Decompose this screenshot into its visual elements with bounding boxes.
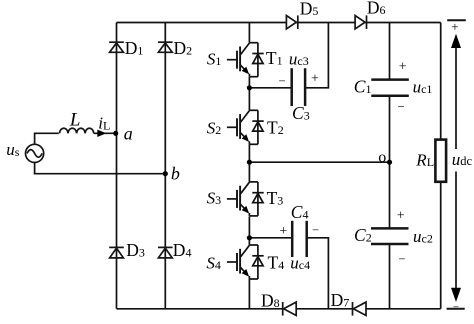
wire C3 to riser [305,23,328,88]
label S3 [207,189,222,208]
label D6 [367,0,386,18]
svg-text:udc: udc [452,150,473,169]
wire left bridge leg a [116,23,118,309]
wire top bus [117,22,441,24]
svg-text:iL: iL [98,114,110,133]
svg-text:uc1: uc1 [413,78,433,97]
svg-text:D3: D3 [126,240,145,260]
wire C1 to node o [389,96,391,162]
igbt module S3/T3 [227,182,264,216]
inductor L [60,128,94,133]
label T4 [268,252,285,272]
svg-text:+: + [451,19,458,34]
svg-text:C4: C4 [291,202,309,222]
label D4 [173,240,192,260]
label D1 [125,38,144,58]
diode D5 [286,15,297,29]
igbt module S1/T1 [227,43,264,77]
wire C2 column bottom [389,245,391,309]
label C3 plus [311,72,319,87]
svg-text:b: b [171,163,180,183]
wire bottom bus [117,308,441,310]
wire RL branch bottom [440,182,442,309]
igbt module S4/T4 [227,245,264,279]
label iL [98,114,110,133]
label C4 plus [279,224,287,239]
svg-text:C1: C1 [354,76,372,96]
wire source loop bottom [35,163,166,174]
node2 T2-T3 junction [247,160,252,165]
svg-text:D7: D7 [331,290,350,310]
capacitor C1 [371,80,409,96]
wire C1 column top [389,23,391,80]
svg-text:S4: S4 [206,253,221,272]
ac source us [25,144,43,162]
label C2 [354,225,372,245]
svg-text:us: us [6,140,19,159]
wire node1 to C3 [249,87,291,89]
diode D8 [283,302,297,316]
svg-text:uc2: uc2 [413,227,433,246]
svg-text:D5: D5 [300,0,319,18]
svg-text:T3: T3 [267,188,284,208]
label minus [453,301,459,313]
svg-text:S3: S3 [207,189,222,208]
label S4 [206,253,221,272]
svg-text:a: a [124,124,133,144]
label C1 [354,76,372,96]
node b [163,171,168,176]
label C3 minus [279,74,286,88]
label us [6,140,19,159]
svg-text:S1: S1 [207,50,222,69]
label RL [415,151,434,170]
svg-text:−: − [398,252,405,266]
voltage arrow udc [451,34,461,302]
label udc [452,150,473,169]
svg-text:D8: D8 [261,291,280,311]
svg-text:−: − [453,301,459,313]
label o [378,149,386,166]
label S2 [207,118,222,137]
label T1 [266,48,283,68]
wire mid to node o [249,161,389,163]
wire RL branch top [440,23,442,140]
label uc2 [413,227,433,246]
svg-text:D4: D4 [173,240,192,260]
wire node o to C2 [389,162,391,228]
svg-text:−: − [398,99,405,113]
label C4 [291,202,309,222]
wire second bridge leg b [164,23,166,309]
wire source loop top [35,133,59,144]
label S1 [207,50,222,69]
label L [69,109,81,130]
label uc3 [289,50,309,69]
node o [387,160,392,165]
label C1 minus [398,99,405,113]
wire switch chain T2-T3 [248,144,250,182]
label C2 minus [398,252,405,266]
svg-text:D6: D6 [367,0,386,18]
diode D2 [158,42,173,52]
label uc4 [290,254,310,273]
label a [124,124,133,144]
capacitor C2 [371,228,409,244]
output minus terminal [447,308,465,310]
svg-text:T2: T2 [267,117,284,137]
svg-text:−: − [312,223,319,237]
current arrow iL [97,130,106,137]
svg-text:uc3: uc3 [289,50,309,69]
diode D4 [158,247,173,258]
diode D6 [355,15,366,29]
wire node3 to C4 [249,237,292,239]
svg-text:C3: C3 [292,103,310,123]
node a [113,131,118,136]
label D2 [174,38,193,58]
label plus [451,19,458,34]
output plus terminal [447,19,466,21]
wire switch chain T1-T2 [248,77,250,110]
wire switch chain top [248,23,250,43]
resistor RL [435,140,446,182]
label C4 minus [312,223,319,237]
node3 T3-T4 junction [247,235,252,240]
svg-text:+: + [279,224,287,239]
capacitor C4 [292,221,307,257]
svg-text:S2: S2 [207,118,222,137]
label uc1 [413,78,433,97]
label D5 [300,0,319,18]
svg-text:−: − [279,74,286,88]
svg-text:+: + [397,208,405,223]
wire inductor to node a [94,132,116,134]
label T2 [267,117,284,137]
capacitor C3 [292,68,305,106]
label C2 plus [397,208,405,223]
label C1 plus [399,59,407,74]
label T3 [267,188,284,208]
diode D1 [109,42,124,52]
label D8 [261,291,280,311]
svg-text:L: L [69,109,81,130]
wire switch chain T3-T4 [248,216,250,245]
wire C4 to riser [307,238,329,309]
svg-text:T4: T4 [268,252,285,272]
svg-text:T1: T1 [266,48,283,68]
node1 T1-T2 junction [247,85,252,90]
diode D7 [353,302,367,316]
label C3 [292,103,310,123]
wire switch chain bottom [248,279,250,309]
svg-text:RL: RL [415,151,434,170]
diode D3 [109,247,124,258]
label b [171,163,180,183]
svg-text:+: + [311,72,319,87]
svg-text:C2: C2 [354,225,372,245]
label D3 [126,240,145,260]
svg-text:D2: D2 [174,38,193,58]
svg-text:D1: D1 [125,38,144,58]
svg-text:o: o [378,149,386,166]
svg-text:+: + [399,59,407,74]
label D7 [331,290,350,310]
igbt module S2/T2 [227,110,264,144]
